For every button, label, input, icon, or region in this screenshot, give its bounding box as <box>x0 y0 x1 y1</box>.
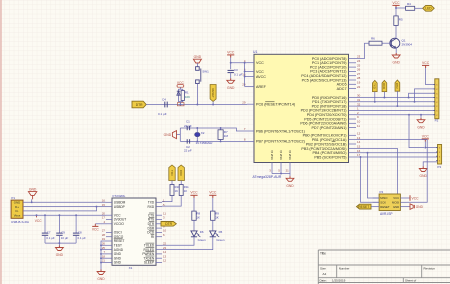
capacitor C7 (0.1 µF Vbus decoupling) <box>44 215 46 233</box>
svg-text:X1: X1 <box>129 266 133 270</box>
wire VCCIO to VCC flag <box>95 223 106 225</box>
U1 pin 26 PC3 (right) <box>349 70 357 72</box>
wire PD2 to header P2 pin 6 <box>356 105 435 107</box>
U1 pin 31 PD1 (right) <box>349 101 357 103</box>
wire port DTR down to PD2 net <box>396 91 398 106</box>
wire PB5 SCK to ISP <box>361 157 380 202</box>
wire R11 to FT232 RXD <box>162 196 181 207</box>
U1 pin 30 PD0 (right) <box>349 97 357 99</box>
svg-text:1/25/2019: 1/25/2019 <box>332 279 346 283</box>
X1 pin 10 DCD (right) <box>156 231 162 233</box>
svg-text:GND: GND <box>164 133 172 137</box>
X1 pin 19 RESET (left) <box>106 240 112 242</box>
U1 pin 20 AREF (left) <box>247 86 254 88</box>
header P2 (8-pin, right) <box>435 79 439 119</box>
U1 pin 7 PB6 (left) <box>247 130 254 132</box>
svg-text:Green: Green <box>216 238 224 242</box>
svg-text:C8: C8 <box>78 231 82 235</box>
ground rail for crystal caps <box>179 128 181 141</box>
svg-text:USBDP: USBDP <box>114 205 125 209</box>
resistor R8 1K (TX LED) <box>193 198 195 211</box>
svg-text:P2: P2 <box>435 119 439 123</box>
svg-text:GND: GND <box>393 205 399 209</box>
LED D5 (RX, green) <box>212 220 214 231</box>
svg-text:SW1: SW1 <box>202 69 209 73</box>
power VCC for RX LED <box>212 195 214 198</box>
svg-text:RXD: RXD <box>382 83 386 89</box>
port LED (net flag, top right) <box>423 5 435 11</box>
X1 pin 3 RTS (right) <box>156 219 162 221</box>
svg-text:P3: P3 <box>437 165 441 169</box>
wire caps to ground <box>58 243 60 245</box>
wire R5 to Q1 collector <box>395 25 397 38</box>
wire RESET port to net <box>212 102 214 105</box>
wire PB3 toward ISP (drop at x394.7) <box>356 149 398 195</box>
svg-text:2N3904: 2N3904 <box>402 43 413 47</box>
ground symbol below U1 <box>289 176 291 178</box>
svg-text:22 pF: 22 pF <box>184 149 192 153</box>
wire VCC to U1 VCC pins <box>230 58 232 63</box>
wire port RXD down to PD0 net <box>383 92 385 98</box>
junction Vbus/VCC <box>36 214 38 216</box>
wire PD4 net down to header P3 <box>409 115 424 148</box>
svg-text:GND: GND <box>416 205 424 209</box>
U1 pin 27 PC4 (right) <box>349 75 357 77</box>
U1 pin 9 PD5 (right) <box>349 118 357 120</box>
switch SW1 (reset button) <box>196 67 200 71</box>
wire PB1 MOSI to ISP (right side) <box>356 140 427 203</box>
power VCC flag on Vbus <box>36 215 38 217</box>
wire rail to VCC pin6 <box>245 71 247 73</box>
svg-text:15: 15 <box>102 203 106 207</box>
wire ISP VCC <box>407 197 411 199</box>
svg-text:VCC: VCC <box>256 70 264 74</box>
X1 pin 25 AGND (left) <box>106 249 112 251</box>
wire VCC to pull-up pair <box>179 87 181 89</box>
X1 pin 6 RI (right) <box>156 236 162 238</box>
svg-text:10K: 10K <box>185 95 190 99</box>
svg-text:PD7 (PCINT23/AIN1): PD7 (PCINT23/AIN1) <box>311 126 346 130</box>
wire header P3 pin4 to ground <box>423 162 437 167</box>
wire PB4 to header P3 pin2 <box>356 152 438 154</box>
ground below header P2 <box>420 118 422 120</box>
X1 pin 5 RXD (right) <box>156 206 162 208</box>
wire ground stem (crystal) <box>177 134 181 136</box>
junction PB5/SCK <box>360 156 362 158</box>
wire rail to AREF <box>245 86 247 88</box>
svg-text:RESET: RESET <box>211 88 215 98</box>
U1 pin 2 PD4 (right) <box>349 114 357 116</box>
junction port DTR <box>396 105 398 107</box>
node pad reset pull-up to net <box>177 103 184 106</box>
U1 pin 12 PB0 (right) <box>349 134 357 136</box>
resistor R6 (Q1 base) <box>369 41 382 45</box>
U1 pin 28 PC5 (right) <box>349 79 357 81</box>
U1 pin 4 VCC (left) <box>247 62 254 64</box>
svg-text:SLEEP: SLEEP <box>144 261 154 265</box>
X1 pin 27 OSCI (left) <box>106 231 112 233</box>
port TXD (vertical, analog area) <box>372 80 377 91</box>
svg-text:14: 14 <box>357 140 361 144</box>
svg-text:1K: 1K <box>215 216 219 220</box>
svg-text:VCC: VCC <box>92 228 100 232</box>
svg-text:VCCIO: VCCIO <box>114 222 125 226</box>
junction node at VCC/Q1 <box>395 7 397 9</box>
U1 pin 16 PB4 (right) <box>349 152 357 154</box>
power VCC for header P3 <box>424 139 426 142</box>
wire PB5 to header P3 pin3 <box>356 156 438 158</box>
svg-text:Number: Number <box>339 266 350 270</box>
svg-text:PB2 (PCINT2/SS/OC1B): PB2 (PCINT2/SS/OC1B) <box>306 142 347 146</box>
wire reset net <box>146 104 247 106</box>
wire Q1 base to R6 <box>382 42 391 44</box>
U1 pin 6 VCC (left) <box>247 71 254 73</box>
port DTR (vertical, analog area) <box>395 80 400 91</box>
port RXD (above R11) <box>178 165 184 181</box>
svg-text:GND: GND <box>227 86 235 90</box>
U1 pin 10 PD6 (right) <box>349 122 357 124</box>
junction VCC rail <box>230 62 232 64</box>
svg-text:RESET: RESET <box>380 205 390 209</box>
svg-text:GND: GND <box>194 55 202 59</box>
junction rail/AVCC <box>244 76 246 78</box>
X1 pin 11 CTS (right) <box>156 214 162 216</box>
port DTR at FT232 <box>161 222 176 227</box>
title block <box>318 249 450 251</box>
svg-text:C4: C4 <box>162 98 166 102</box>
junction PB4/MISO <box>367 152 369 154</box>
wire USB GND up <box>31 199 33 202</box>
svg-text:Date:: Date: <box>320 279 327 283</box>
junction PD4/x409 <box>408 114 410 116</box>
svg-text:C9: C9 <box>61 231 65 235</box>
U1 pin 22 ADC7 (right) <box>349 88 357 90</box>
svg-text:22: 22 <box>357 85 361 89</box>
capacitor C8 (0.1 µF Vbus decoupling) <box>75 215 77 233</box>
svg-text:GND: GND <box>29 188 37 192</box>
U1 pin 19 ADC6 (right) <box>349 83 357 85</box>
capacitor C4 (auto-reset) <box>164 102 166 108</box>
svg-text:Size: Size <box>320 266 326 270</box>
crystal X2 <box>195 133 200 137</box>
X1 pin 4 VCCIO (left) <box>106 223 112 225</box>
X1 pin 21 GND (left) <box>106 262 112 264</box>
U1 pin 17 PB5 (right) <box>349 156 357 158</box>
wire SW1 to reset net <box>196 84 198 105</box>
wire PB4 MISO to ISP <box>368 153 380 198</box>
junction caps/ground <box>58 242 60 244</box>
wire R6 to U1 PC0 <box>356 43 369 58</box>
junction port TXD <box>374 101 376 103</box>
svg-text:P1: P1 <box>11 196 15 200</box>
svg-text:PC6 (RESET/PCINT14): PC6 (RESET/PCINT14) <box>256 103 295 107</box>
junction Vbus/C9 <box>58 214 60 216</box>
svg-text:ATmega328P-AUR: ATmega328P-AUR <box>253 175 282 179</box>
X1 pin 15 USBDP (left) <box>106 206 112 208</box>
svg-text:GND: GND <box>56 253 64 257</box>
svg-text:VCC: VCC <box>412 196 420 200</box>
junction D-/USBDP <box>96 206 98 208</box>
junction Vbus/C7 <box>44 214 46 216</box>
svg-text:13: 13 <box>357 136 361 140</box>
wire USB D+ to FT232 USBDP <box>23 206 106 208</box>
svg-text:DTR: DTR <box>136 103 143 107</box>
X1 pin 7 GND (left) <box>106 253 112 255</box>
wire PD4 to header P2 pin 8 <box>356 114 435 116</box>
svg-text:VCC: VCC <box>422 134 430 138</box>
svg-text:0.1 µF: 0.1 µF <box>234 72 243 76</box>
power VCC for U1 supply <box>230 55 232 58</box>
U1 pin 18 AVCC (left) <box>247 76 254 78</box>
U1 pin 32 PD2 (right) <box>349 105 357 107</box>
svg-text:USB-B-S-RA: USB-B-S-RA <box>11 220 30 224</box>
wire PD1 to header P2 pin 5 <box>356 101 435 103</box>
svg-text:PB6 (PCINT6/XTAL1/TOSC1): PB6 (PCINT6/XTAL1/TOSC1) <box>256 129 305 133</box>
ground symbol (crystal, pointing left) <box>172 131 176 139</box>
U1 pin 3 GND (bottom) <box>271 163 273 174</box>
svg-text:20: 20 <box>242 83 246 87</box>
U1 pin 8 PB7 (left) <box>247 140 254 142</box>
U1 pin 23 PC0 (right) <box>349 58 357 60</box>
wire FT232 ground bundle <box>101 241 106 270</box>
svg-text:C1: C1 <box>186 120 190 124</box>
wire ISP RESET port <box>371 206 373 208</box>
junction crystal bottom <box>196 140 198 142</box>
junction pin8 gnd tap <box>420 114 422 116</box>
svg-text:X2: X2 <box>201 131 205 135</box>
svg-text:AVCC: AVCC <box>256 75 266 79</box>
svg-text:1K: 1K <box>196 216 200 220</box>
wire Q1 emitter to ground <box>395 48 397 53</box>
svg-text:TXD: TXD <box>170 170 174 176</box>
svg-text:VCC: VCC <box>227 50 235 54</box>
svg-text:GND: GND <box>97 277 105 281</box>
junction VCC/P3 pin1 <box>424 147 426 149</box>
svg-text:GND: GND <box>114 261 122 265</box>
svg-text:PB7 (PCINT7/XTAL2/TOSC2): PB7 (PCINT7/XTAL2/TOSC2) <box>256 140 305 144</box>
svg-text:Green: Green <box>198 238 206 242</box>
svg-text:VCC: VCC <box>209 191 217 195</box>
ground at ISP (sideways) <box>410 204 413 210</box>
svg-text:GND: GND <box>420 174 428 178</box>
X1 pin 23 RXLED (right) <box>156 249 162 251</box>
wire VCC junction to R4 <box>396 7 406 9</box>
resistor R9 1K (RX LED) <box>212 198 214 211</box>
svg-text:DTR: DTR <box>165 222 172 226</box>
svg-text:C7: C7 <box>47 231 51 235</box>
wire C3 to ground <box>230 73 232 79</box>
junction on ground wire <box>280 173 282 175</box>
svg-text:1K: 1K <box>184 189 188 193</box>
LED D6 (TX, green) <box>193 220 195 231</box>
svg-text:FT232RL: FT232RL <box>113 194 126 198</box>
svg-text:Title: Title <box>320 251 326 255</box>
wire USB GND to FT232 USBDM <box>23 201 106 203</box>
svg-text:1M: 1M <box>224 134 229 138</box>
U1 pin 15 PB3 (right) <box>349 148 357 150</box>
svg-text:U1: U1 <box>253 50 257 54</box>
svg-text:A4: A4 <box>323 272 327 276</box>
svg-text:TXD: TXD <box>373 83 377 89</box>
resistor R7 (crystal feedback) <box>220 128 222 130</box>
transistor Q1 2N3904 <box>390 38 400 48</box>
wire PD3 to header P2 pin 7 <box>356 109 435 111</box>
svg-text:RESET: RESET <box>358 205 369 209</box>
U1 pin 24 PC1 (right) <box>349 62 357 64</box>
svg-text:VCC: VCC <box>35 219 42 223</box>
wire D5 to FT232 RXLED <box>162 237 213 250</box>
U1 pin 25 PC2 (right) <box>349 66 357 68</box>
X1 pin 2 DTR (right) <box>156 223 162 225</box>
diode D1 (reset protection) <box>177 89 179 101</box>
svg-text:12: 12 <box>163 259 167 263</box>
svg-text:10 µF: 10 µF <box>61 236 69 240</box>
junction Vbus/C8 <box>75 214 77 216</box>
ground below caps <box>58 246 60 248</box>
junction R7 bottom <box>220 140 222 142</box>
X1 pin 22 TXLED (right) <box>156 244 162 246</box>
wire header P2 pin8 to ground <box>420 115 422 118</box>
resistor R11 (RXD series) <box>180 181 182 185</box>
wire bend into P2 pin 3 <box>409 93 435 97</box>
junction crystal top <box>196 127 198 129</box>
svg-text:GND: GND <box>286 184 294 188</box>
power VCC at VCCIO <box>94 224 96 227</box>
wire joining decoupling caps <box>45 242 76 244</box>
X1 pin 14 PWREN (right) <box>156 253 162 255</box>
wire rail to AVCC <box>245 76 247 78</box>
port TXD (above R10) <box>169 165 175 181</box>
wire R4 to port <box>415 7 423 9</box>
wire bend into P2 pin 2 <box>415 89 435 102</box>
power VCC at ISP (sideways) <box>409 195 411 201</box>
wire R10 to FT232 TXD <box>162 196 172 202</box>
ground below C3 <box>230 78 232 80</box>
svg-text:VCC: VCC <box>422 61 430 65</box>
capacitor C2 (XTAL2 load) <box>186 139 188 143</box>
X1 pin 26 TEST (left) <box>106 244 112 246</box>
svg-text:DTR: DTR <box>395 83 399 89</box>
svg-text:29: 29 <box>242 100 246 104</box>
wire joining U1 ground pins <box>272 174 290 177</box>
U1 pin 5 GND (bottom) <box>280 163 282 174</box>
svg-text:21: 21 <box>286 169 290 173</box>
svg-text:VCC: VCC <box>256 61 264 65</box>
resistor R5 (Q1 collector load) <box>394 16 398 26</box>
svg-text:PB1 (PCINT1/OC1A): PB1 (PCINT1/OC1A) <box>312 138 347 142</box>
wire VCC down to R5 <box>395 8 397 16</box>
junction R7 top <box>220 127 222 129</box>
wire XTAL2 bottom run <box>180 140 247 142</box>
svg-text:RXD: RXD <box>147 205 154 209</box>
svg-text:D5: D5 <box>219 230 223 234</box>
header P4 AVR-ISP body <box>379 194 400 211</box>
junction reset/SW1 <box>196 104 198 106</box>
port RESET (vertical) <box>210 85 216 102</box>
svg-text:Sheet of: Sheet of <box>405 279 416 283</box>
X1 pin 18 GND (left) <box>106 257 112 259</box>
X1 pin 16 USBDM (left) <box>106 201 112 203</box>
IC X1 FT232RL (USB-UART bridge) <box>112 198 156 265</box>
svg-text:LED: LED <box>425 7 432 11</box>
U1 pin 14 PB2 (right) <box>349 143 357 145</box>
resistor R1 10K (reset pull-up) <box>181 91 184 101</box>
power VCC for Q1 collector <box>395 5 397 8</box>
U1 pin 21 GND (bottom) <box>289 163 291 174</box>
svg-text:P4: P4 <box>380 190 384 194</box>
junction rail/pin6 <box>244 71 246 73</box>
svg-text:GND: GND <box>393 61 401 65</box>
svg-text:R6: R6 <box>371 36 375 40</box>
wire USB D- <box>23 207 97 211</box>
wire VCC to P2 pin 1 <box>426 68 435 85</box>
capacitor C9 (10 µF Vbus decoupling) <box>58 215 60 233</box>
svg-text:0.1 µF: 0.1 µF <box>158 112 167 116</box>
X1 pin 20 VCC (left) <box>106 214 112 216</box>
svg-text:GND: GND <box>417 125 425 129</box>
port DTR (reset line, left) <box>132 101 146 108</box>
power VCC for header P2 <box>425 65 427 68</box>
port RXD (vertical, analog area) <box>382 80 387 91</box>
U1 pin 11 PD7 (right) <box>349 127 357 129</box>
svg-text:Revision: Revision <box>424 266 436 270</box>
header P3 (4-pin, right) <box>438 145 442 165</box>
svg-text:AVR-ISP: AVR-ISP <box>380 212 393 216</box>
X1 pin 17 3V3OUT (left) <box>106 219 112 221</box>
svg-text:1K: 1K <box>175 189 179 193</box>
svg-text:0.1 µF: 0.1 µF <box>46 236 54 240</box>
svg-text:RXD: RXD <box>179 170 183 176</box>
junction USB GND <box>31 201 33 203</box>
resistor R4 (series to status port) <box>406 6 415 10</box>
junction reset/port <box>212 104 214 106</box>
svg-text:R5: R5 <box>399 18 403 22</box>
wire XTAL1 top run <box>180 128 247 131</box>
svg-text:21: 21 <box>102 259 106 263</box>
svg-text:VCC: VCC <box>190 191 198 195</box>
wire VCC to P3 pin1 <box>424 142 426 148</box>
IC U1 ATmega328P-AUR (microcontroller) <box>254 54 349 162</box>
svg-text:0.1 µF: 0.1 µF <box>78 236 86 240</box>
ground for Q1 emitter <box>395 53 397 55</box>
junction rail/pin4 <box>244 62 246 64</box>
X1 pin 13 TXDEN (right) <box>156 257 162 259</box>
svg-text:ADC7: ADC7 <box>337 87 347 91</box>
junction P2 pin3 tap <box>408 97 410 99</box>
connector P1 USB-B body <box>11 200 23 218</box>
ground below FT232 <box>100 270 102 272</box>
wire D6 to FT232 TXLED <box>162 237 194 246</box>
junction P2 pin2 tap <box>414 101 416 103</box>
svg-text:R4: R4 <box>407 2 411 6</box>
svg-text:11: 11 <box>357 124 360 128</box>
power VCC for TX LED <box>193 195 195 198</box>
wire ISP GND <box>407 206 411 208</box>
svg-text:RI: RI <box>151 235 154 239</box>
capacitor C1 (XTAL1 load) <box>186 126 188 130</box>
wire USB Vbus to FT232 VCC <box>23 214 106 216</box>
U1 pin 13 PB1 (right) <box>349 139 357 141</box>
X1 pin 1 TXD (right) <box>156 201 162 203</box>
resistor R10 (TXD series) <box>171 181 173 185</box>
wire port TXD down to PD1 net <box>374 92 376 102</box>
junction reset/pull-up <box>179 104 181 106</box>
port RESET at ISP <box>357 204 372 209</box>
capacitor C3 (VCC decoupling) <box>230 63 232 69</box>
X1 pin 12 SLEEP (right) <box>156 262 162 264</box>
U1 pin 1 PD3 (right) <box>349 109 357 111</box>
svg-text:D6: D6 <box>200 230 204 234</box>
